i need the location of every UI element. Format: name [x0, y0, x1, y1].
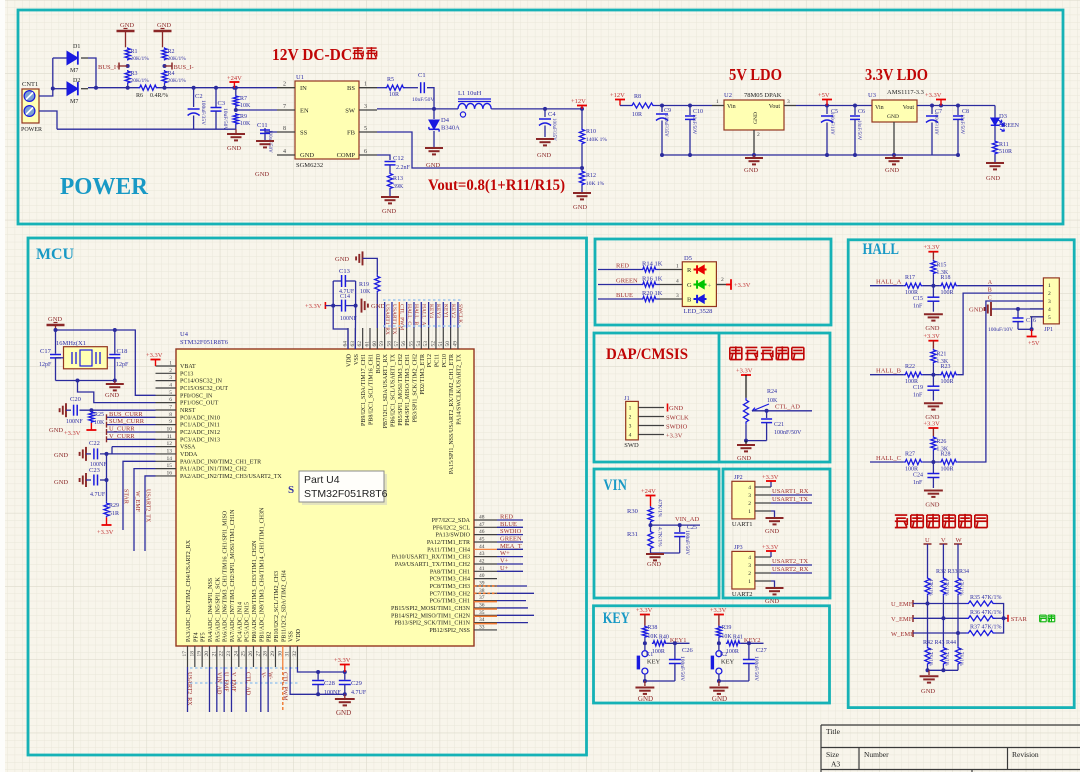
svg-text:100uF/10V: 100uF/10V	[933, 112, 938, 135]
POWER section box	[18, 10, 1063, 224]
wire key2 bottom	[719, 674, 749, 681]
svg-text:+3.3V: +3.3V	[762, 544, 779, 551]
svg-text:S: S	[288, 484, 294, 496]
svg-text:5: 5	[169, 390, 172, 396]
resistor R9	[233, 113, 238, 125]
resistor R4	[162, 70, 167, 84]
svg-text:U: U	[925, 537, 930, 544]
svg-text:GND: GND	[737, 455, 751, 462]
svg-text:10R: 10R	[632, 112, 642, 118]
svg-text:3: 3	[676, 293, 679, 299]
capacitor C4	[544, 109, 546, 117]
svg-text:SWCLK: SWCLK	[457, 304, 463, 323]
svg-text:NRST: NRST	[180, 408, 196, 414]
svg-text:+3.3V: +3.3V	[710, 607, 727, 614]
svg-text:SW: SW	[345, 108, 356, 115]
gnd under R11	[986, 162, 1004, 164]
resistor R1	[125, 47, 130, 60]
svg-text:C2: C2	[195, 93, 203, 100]
svg-text:KEY3: KEY3	[435, 304, 441, 318]
svg-text:4: 4	[1048, 307, 1051, 313]
wire pa1 w_emf	[134, 469, 156, 551]
svg-text:C26: C26	[682, 647, 694, 654]
svg-text:D5: D5	[684, 255, 692, 262]
wire bemf mid	[927, 596, 929, 646]
svg-text:PC5/ADC_IN15: PC5/ADC_IN15	[245, 602, 251, 642]
svg-text:PC15/OSC32_OUT: PC15/OSC32_OUT	[180, 386, 228, 392]
gnd under C18	[114, 381, 116, 384]
svg-text:R41: R41	[733, 635, 743, 641]
capacitor C26	[674, 643, 676, 659]
regulator U3 AMS1117	[872, 100, 917, 122]
capacitor C9	[661, 106, 663, 113]
svg-text:10nF/50V: 10nF/50V	[856, 120, 861, 141]
gnd c22	[85, 447, 87, 461]
svg-text:44: 44	[479, 544, 485, 550]
svg-text:R8: R8	[634, 94, 641, 100]
svg-text:+: +	[708, 282, 712, 290]
svg-text:BUS_I-: BUS_I-	[174, 64, 194, 71]
switch K2	[718, 643, 720, 650]
svg-text:100uF/10V: 100uF/10V	[988, 327, 1013, 333]
svg-text:PB14/SPI2_MISO/TIM1_CH2N: PB14/SPI2_MISO/TIM1_CH2N	[391, 613, 471, 619]
svg-text:SGM6232: SGM6232	[296, 162, 323, 169]
gnd boot cluster	[361, 299, 363, 313]
svg-text:37: 37	[479, 595, 485, 601]
svg-text:0.4R/%: 0.4R/%	[150, 93, 168, 99]
svg-text:100NF: 100NF	[340, 316, 357, 322]
svg-text:BS: BS	[347, 85, 355, 92]
svg-text:12: 12	[167, 441, 173, 447]
svg-text:32: 32	[292, 651, 298, 657]
svg-text:36: 36	[479, 602, 485, 608]
svg-text:U_CURR: U_CURR	[109, 425, 135, 432]
svg-text:20: 20	[204, 651, 210, 657]
wire vdd bottom	[297, 667, 344, 672]
resistor R26	[931, 436, 936, 451]
regulator U1 SGM6232	[295, 81, 359, 159]
svg-text:Vin: Vin	[727, 104, 736, 110]
capacitor C12	[377, 155, 390, 160]
capacitor C18	[114, 330, 116, 354]
capacitor C8	[957, 106, 959, 116]
svg-text:K2: K2	[720, 652, 727, 658]
svg-text:U_EMF: U_EMF	[891, 601, 913, 608]
resistor R6	[138, 85, 158, 90]
label not used	[1040, 615, 1055, 622]
svg-text:MCU: MCU	[36, 246, 74, 263]
svg-text:+3.3V: +3.3V	[146, 352, 163, 359]
svg-text:GND: GND	[382, 208, 396, 215]
mcu U4 body	[176, 349, 474, 646]
svg-text:23: 23	[226, 651, 232, 657]
resistor R41	[726, 641, 741, 646]
wire c13 right to vss	[354, 281, 356, 349]
svg-text:R1: R1	[131, 49, 138, 55]
svg-text:PA15/SPI1_NSS/USART2_RX/TIM2_C: PA15/SPI1_NSS/USART2_RX/TIM2_CH1_ETR	[449, 354, 455, 474]
capacitor C10	[689, 106, 691, 116]
svg-text:R10: R10	[586, 129, 596, 135]
svg-text:SWD: SWD	[624, 442, 639, 449]
gnd hall A	[924, 313, 943, 315]
svg-text:78M05 DPAK: 78M05 DPAK	[744, 92, 782, 99]
svg-text:COMP: COMP	[337, 152, 356, 159]
svg-text:CTL_AD: CTL_AD	[245, 672, 251, 696]
svg-text:3: 3	[629, 424, 632, 430]
svg-text:20K/1%: 20K/1%	[131, 56, 150, 62]
gnd uart1	[771, 511, 775, 517]
resistor R39	[716, 626, 721, 639]
led D5 body	[682, 262, 716, 307]
svg-text:3.3V LDO: 3.3V LDO	[865, 65, 928, 84]
svg-text:48: 48	[479, 515, 485, 521]
connector JP2	[732, 481, 755, 519]
svg-text:61: 61	[364, 341, 370, 347]
gnd c23	[85, 473, 87, 487]
svg-text:1: 1	[629, 406, 632, 412]
svg-text:PA13/SWDIO: PA13/SWDIO	[436, 533, 471, 539]
svg-text:VBAT: VBAT	[180, 364, 196, 370]
capacitor C16	[1017, 309, 1019, 318]
svg-text:10K: 10K	[360, 289, 371, 295]
capacitor C27	[748, 643, 750, 659]
svg-text:100NF: 100NF	[324, 690, 341, 696]
resistor R43	[941, 646, 946, 665]
gnd vin	[646, 553, 664, 555]
svg-text:100nF/50V: 100nF/50V	[684, 530, 690, 555]
svg-text:41: 41	[479, 566, 485, 572]
svg-text:R23: R23	[941, 364, 951, 370]
svg-text:VDD: VDD	[296, 628, 302, 642]
svg-text:R32 R33 R34: R32 R33 R34	[936, 569, 969, 575]
svg-text:C17: C17	[40, 348, 52, 355]
svg-text:Part U4: Part U4	[304, 474, 340, 486]
svg-text:C23: C23	[89, 467, 100, 474]
svg-text:V_EMF: V_EMF	[230, 672, 236, 692]
wire vdda filter	[106, 454, 108, 502]
nrst pull cluster gnd	[65, 403, 67, 417]
svg-text:+3.3V: +3.3V	[923, 421, 940, 428]
svg-text:3: 3	[748, 563, 751, 569]
svg-text:100uF/35V: 100uF/35V	[663, 114, 668, 137]
svg-text:VDD: VDD	[347, 353, 353, 367]
svg-text:GND: GND	[105, 392, 119, 399]
resistor R20	[642, 296, 658, 301]
svg-text:R2: R2	[168, 49, 175, 55]
svg-text:UART2: UART2	[732, 591, 753, 598]
svg-text:FB: FB	[347, 130, 356, 137]
svg-text:20K/1%: 20K/1%	[168, 78, 187, 84]
svg-text:K1: K1	[646, 652, 653, 658]
svg-text:GND: GND	[765, 598, 779, 605]
svg-text:17: 17	[182, 651, 188, 657]
svg-text:PC12: PC12	[427, 354, 433, 367]
svg-text:+3.3V: +3.3V	[334, 657, 351, 664]
svg-text:100R: 100R	[941, 467, 954, 473]
net labels curr	[107, 416, 156, 418]
svg-text:PA3/ADC_IN3/TIM2_CH4/USART2_RX: PA3/ADC_IN3/TIM2_CH4/USART2_RX	[186, 539, 192, 642]
svg-text:C3: C3	[218, 100, 226, 107]
svg-text:HALL_B: HALL_B	[876, 368, 902, 375]
resistor R8	[620, 105, 630, 107]
svg-text:47K/1%: 47K/1%	[928, 579, 933, 596]
svg-text:2: 2	[283, 82, 286, 88]
capacitor C19	[932, 375, 934, 386]
svg-text:+3.3V: +3.3V	[736, 368, 753, 375]
net BUS_I+	[126, 64, 130, 68]
wire vssa	[112, 446, 156, 448]
svg-text:V_CURR: V_CURR	[109, 433, 135, 440]
svg-text:PB9/I2C1_SDA/TIM17_CH1: PB9/I2C1_SDA/TIM17_CH1	[361, 354, 367, 426]
net usart2	[771, 564, 812, 566]
svg-text:IN: IN	[300, 85, 307, 92]
svg-text:STM32F051R8T6: STM32F051R8T6	[180, 339, 229, 346]
svg-text:26: 26	[248, 651, 254, 657]
svg-text:R25: R25	[94, 412, 104, 418]
svg-text:PC9/TIM3_CH4: PC9/TIM3_CH4	[430, 577, 470, 583]
svg-text:GND: GND	[54, 452, 68, 459]
svg-text:4.7K/1%: 4.7K/1%	[657, 527, 663, 547]
svg-text:Title: Title	[826, 727, 841, 736]
svg-text:GND: GND	[371, 303, 385, 310]
wire L1 to +12V node	[491, 108, 582, 110]
mcu top pins	[347, 328, 349, 349]
svg-text:7: 7	[169, 404, 172, 410]
crystal Y1 16MHz	[64, 347, 108, 369]
svg-text:PB4/SPI1_MISO/TIM3_CH1: PB4/SPI1_MISO/TIM3_CH1	[405, 354, 411, 426]
diode D4 B340A	[433, 109, 435, 119]
svg-text:GND: GND	[336, 709, 351, 717]
resistor R5	[377, 87, 385, 89]
svg-text:HALL_C: HALL_C	[406, 304, 412, 325]
mcu right pins	[474, 519, 497, 521]
svg-text:GND: GND	[300, 152, 314, 159]
svg-text:CTL_AD: CTL_AD	[775, 404, 800, 411]
net U_EMF	[912, 600, 914, 607]
gnd key2	[709, 687, 728, 689]
svg-text:100nF/50V: 100nF/50V	[753, 656, 759, 681]
J1 net labels	[667, 404, 669, 412]
wire to U2	[655, 105, 712, 107]
svg-text:16MHz(X1: 16MHz(X1	[56, 340, 86, 347]
svg-text:15: 15	[167, 463, 173, 469]
resistor R17	[904, 283, 923, 288]
svg-text:W+: W+	[500, 550, 510, 557]
svg-text:8: 8	[169, 412, 172, 418]
svg-text:2: 2	[757, 132, 760, 138]
svg-text:PB13/SPI2_SCK/TIM1_CH1N: PB13/SPI2_SCK/TIM1_CH1N	[394, 621, 470, 627]
capacitor C21	[766, 411, 768, 418]
wire hall B to JP1	[958, 293, 1044, 375]
svg-text:PB11/I2C2_SDA/TIM2_CH4: PB11/I2C2_SDA/TIM2_CH4	[281, 570, 287, 642]
svg-text:50: 50	[445, 341, 451, 347]
resistor R3	[125, 70, 130, 84]
gnd key1	[635, 687, 654, 689]
svg-text:R: R	[687, 267, 692, 274]
connector J1 SWD	[626, 401, 639, 440]
svg-text:GND: GND	[925, 325, 939, 332]
svg-text:+24V: +24V	[641, 488, 656, 495]
gnd under D4	[425, 147, 443, 149]
wire pot bottom	[746, 424, 767, 441]
svg-text:PB3/SPI1_SCK/TIM2_CH2: PB3/SPI1_SCK/TIM2_CH2	[412, 354, 418, 422]
resistor R25	[89, 408, 93, 412]
svg-text:USART2_RX: USART2_RX	[186, 672, 192, 706]
net STAR	[1007, 615, 1009, 622]
svg-text:VSS: VSS	[289, 631, 295, 642]
svg-text:+3.3V: +3.3V	[923, 333, 940, 340]
wire vin_ad	[649, 523, 653, 527]
svg-text:VIN_AD: VIN_AD	[215, 672, 221, 695]
wire c13 left to vdd	[333, 281, 348, 349]
svg-text:18: 18	[189, 651, 195, 657]
svg-text:SS: SS	[300, 130, 308, 137]
svg-text:22: 22	[219, 651, 225, 657]
power +3.3V led	[730, 279, 732, 290]
svg-text:PC6/TIM3_CH1: PC6/TIM3_CH1	[430, 599, 470, 605]
wire pa0 star	[123, 461, 156, 530]
svg-text:R5: R5	[387, 77, 394, 83]
resistor R34	[955, 577, 960, 596]
svg-text:GND: GND	[54, 479, 68, 486]
svg-text:+3.3V: +3.3V	[64, 430, 81, 437]
svg-text:HALL_A: HALL_A	[876, 279, 902, 286]
svg-text:5: 5	[364, 126, 367, 132]
svg-text:PF1/OSC_OUT: PF1/OSC_OUT	[180, 401, 219, 407]
capacitor C3	[215, 88, 217, 107]
svg-text:10K: 10K	[94, 420, 105, 426]
svg-text:16: 16	[167, 470, 173, 476]
svg-text:EN: EN	[300, 108, 309, 115]
svg-text:SWDIO: SWDIO	[500, 528, 522, 535]
capacitor C17	[55, 330, 57, 354]
svg-text:47K/1%: 47K/1%	[657, 499, 663, 518]
svg-text:R37 47K/1%: R37 47K/1%	[970, 625, 1002, 631]
svg-text:29: 29	[270, 651, 276, 657]
svg-text:C22: C22	[89, 440, 100, 447]
svg-text:1nF: 1nF	[913, 480, 923, 486]
svg-text:W_EMF: W_EMF	[891, 631, 914, 638]
svg-text:V-: V-	[259, 672, 265, 678]
wire osc top net	[56, 330, 156, 395]
wire main +24V rail	[81, 88, 88, 90]
mcu bottom net wires	[187, 667, 189, 712]
svg-text:PB1/ADC_IN9/TIM3_CH4/TIM14_CH1: PB1/ADC_IN9/TIM3_CH4/TIM14_CH1/TIM1_CH3N	[259, 507, 265, 642]
svg-text:4: 4	[748, 485, 751, 491]
svg-text:10nF/50V: 10nF/50V	[412, 97, 434, 103]
svg-text:10K: 10K	[240, 103, 251, 109]
svg-text:100R: 100R	[941, 290, 954, 296]
gnd under R12	[573, 192, 591, 194]
svg-text:R15: R15	[936, 263, 946, 269]
wire hall C to JP1	[958, 301, 1044, 462]
capacitor C15	[932, 286, 934, 297]
resistor R10	[581, 109, 583, 128]
svg-text:PA14/SWCLK/USART2_TX: PA14/SWCLK/USART2_TX	[456, 353, 462, 424]
svg-text:R18: R18	[941, 275, 951, 281]
svg-text:PC10: PC10	[442, 354, 448, 367]
svg-text:KEY: KEY	[603, 610, 630, 627]
svg-text:B: B	[988, 288, 992, 294]
svg-text:CTL_PWM: CTL_PWM	[281, 672, 287, 701]
svg-text:HALL_A: HALL_A	[421, 304, 427, 325]
svg-text:28: 28	[263, 651, 269, 657]
svg-text:GND: GND	[638, 695, 653, 703]
svg-text:+12V: +12V	[571, 98, 586, 105]
svg-text:C19: C19	[913, 385, 923, 391]
gnd hall C	[924, 490, 943, 492]
resistor R40	[652, 641, 667, 646]
svg-text:1: 1	[748, 509, 751, 515]
svg-text:10uF/50V: 10uF/50V	[222, 108, 228, 130]
resistor R42	[925, 646, 930, 665]
wire +3.3V node	[917, 105, 995, 107]
svg-text:PA8/TIM1_CH1: PA8/TIM1_CH1	[430, 569, 470, 575]
svg-text:56: 56	[401, 341, 407, 347]
svg-text:GND: GND	[885, 167, 899, 174]
svg-text:58: 58	[386, 341, 392, 347]
gnd mcu bottom	[344, 694, 346, 698]
svg-text:R16 1K: R16 1K	[642, 276, 663, 283]
svg-text:BUS_CURR: BUS_CURR	[109, 411, 143, 418]
svg-text:10R: 10R	[389, 92, 399, 98]
svg-text:4: 4	[676, 279, 679, 285]
svg-text:1nF: 1nF	[913, 393, 923, 399]
svg-text:R13: R13	[393, 176, 403, 182]
MCU section box	[28, 238, 587, 755]
svg-text:PB12/SPI2_NSS: PB12/SPI2_NSS	[429, 628, 470, 634]
svg-text:2.2nF: 2.2nF	[396, 165, 411, 171]
svg-text:R11: R11	[999, 142, 1009, 148]
gnd uart2	[771, 581, 775, 587]
svg-text:1: 1	[676, 264, 679, 270]
svg-text:D1: D1	[73, 44, 80, 50]
gnd under C4	[536, 138, 554, 140]
svg-text:34: 34	[479, 617, 485, 623]
svg-text:R30: R30	[627, 508, 638, 515]
svg-text:GND: GND	[335, 256, 349, 263]
resistor R28	[940, 459, 958, 464]
svg-text:21: 21	[211, 651, 217, 657]
svg-text:9: 9	[169, 419, 172, 425]
svg-text:6: 6	[364, 149, 367, 155]
DAP section box	[594, 333, 830, 462]
svg-text:PA9/USART1_TX/TIM1_CH2: PA9/USART1_TX/TIM1_CH2	[395, 562, 470, 568]
resistor R19	[375, 275, 380, 293]
svg-text:PB8/I2C1_SCL/TIM16_CH1: PB8/I2C1_SCL/TIM16_CH1	[368, 354, 374, 425]
capacitor C11	[265, 128, 277, 132]
svg-text:1: 1	[364, 82, 367, 88]
svg-text:+3.3V: +3.3V	[97, 529, 114, 536]
svg-text:PA1/ADC_IN1/TIM2_CH2: PA1/ADC_IN1/TIM2_CH2	[180, 467, 247, 473]
svg-text:A3: A3	[831, 760, 840, 769]
gnd under U2	[753, 155, 755, 157]
svg-text:51: 51	[438, 341, 444, 347]
svg-text:510R: 510R	[999, 149, 1012, 155]
wire EN	[234, 108, 238, 112]
svg-text:VIN_AD: VIN_AD	[675, 516, 699, 523]
svg-text:USART2_RX: USART2_RX	[772, 566, 809, 573]
svg-text:55: 55	[408, 341, 414, 347]
svg-text:12V DC-DC: 12V DC-DC	[272, 45, 352, 64]
svg-text:DAP/CMSIS: DAP/CMSIS	[606, 346, 688, 363]
svg-text:R36 47K/1%: R36 47K/1%	[970, 610, 1002, 616]
svg-text:10nF/50V: 10nF/50V	[959, 114, 964, 135]
svg-text:GREEN: GREEN	[616, 278, 638, 285]
svg-text:4.7K/1%: 4.7K/1%	[928, 648, 933, 666]
svg-text:PB6/I2C1_SCL/USART1_TX: PB6/I2C1_SCL/USART1_TX	[390, 353, 396, 427]
svg-text:2: 2	[721, 277, 724, 283]
